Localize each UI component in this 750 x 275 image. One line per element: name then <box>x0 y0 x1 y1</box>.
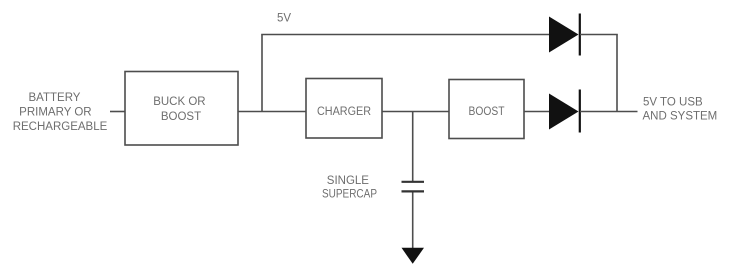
wire: buck output to charger input <box>238 111 306 113</box>
diode D1: anode triangle <box>549 17 579 53</box>
svg-text:5V: 5V <box>277 12 291 24</box>
wire: battery input lead <box>110 111 125 113</box>
wire: boost output to diode D2 anode <box>524 111 550 113</box>
ground (down arrow) <box>402 248 425 264</box>
wire: D1 cathode to right riser <box>580 34 618 36</box>
wire: supercap to ground arrow <box>412 193 414 250</box>
diode D2: anode triangle <box>549 94 579 130</box>
capacitor C1 (supercap): top plate <box>402 181 425 183</box>
wire: riser from node A up to 5V rail <box>261 35 263 112</box>
diode D2: cathode bar <box>579 90 581 133</box>
svg-text:5V TO USB AND SYSTEM: 5V TO USB AND SYSTEM <box>643 97 718 123</box>
wire: charger output to boost input <box>382 111 449 113</box>
svg-text:SINGLE SUPERCAP: SINGLE SUPERCAP <box>322 175 377 201</box>
diode D1: cathode bar <box>579 14 581 56</box>
wire: down from node B to supercap <box>412 112 414 182</box>
block U2: CHARGER <box>306 79 382 139</box>
svg-text:BOOST: BOOST <box>469 106 505 118</box>
capacitor C1 (supercap): bottom plate <box>402 190 425 192</box>
wire: 5V top rail to diode D1 anode <box>261 34 549 36</box>
wire: right riser down to output node <box>616 35 618 112</box>
svg-text:CHARGER: CHARGER <box>317 106 371 118</box>
block U3: BOOST <box>449 80 524 139</box>
wire: output rail to system load <box>580 111 638 113</box>
block U1: BUCK OR BOOST <box>125 72 238 146</box>
svg-text:BATTERY PRIMARY OR REC: BATTERY PRIMARY OR RECHARGEABLE <box>13 92 108 133</box>
